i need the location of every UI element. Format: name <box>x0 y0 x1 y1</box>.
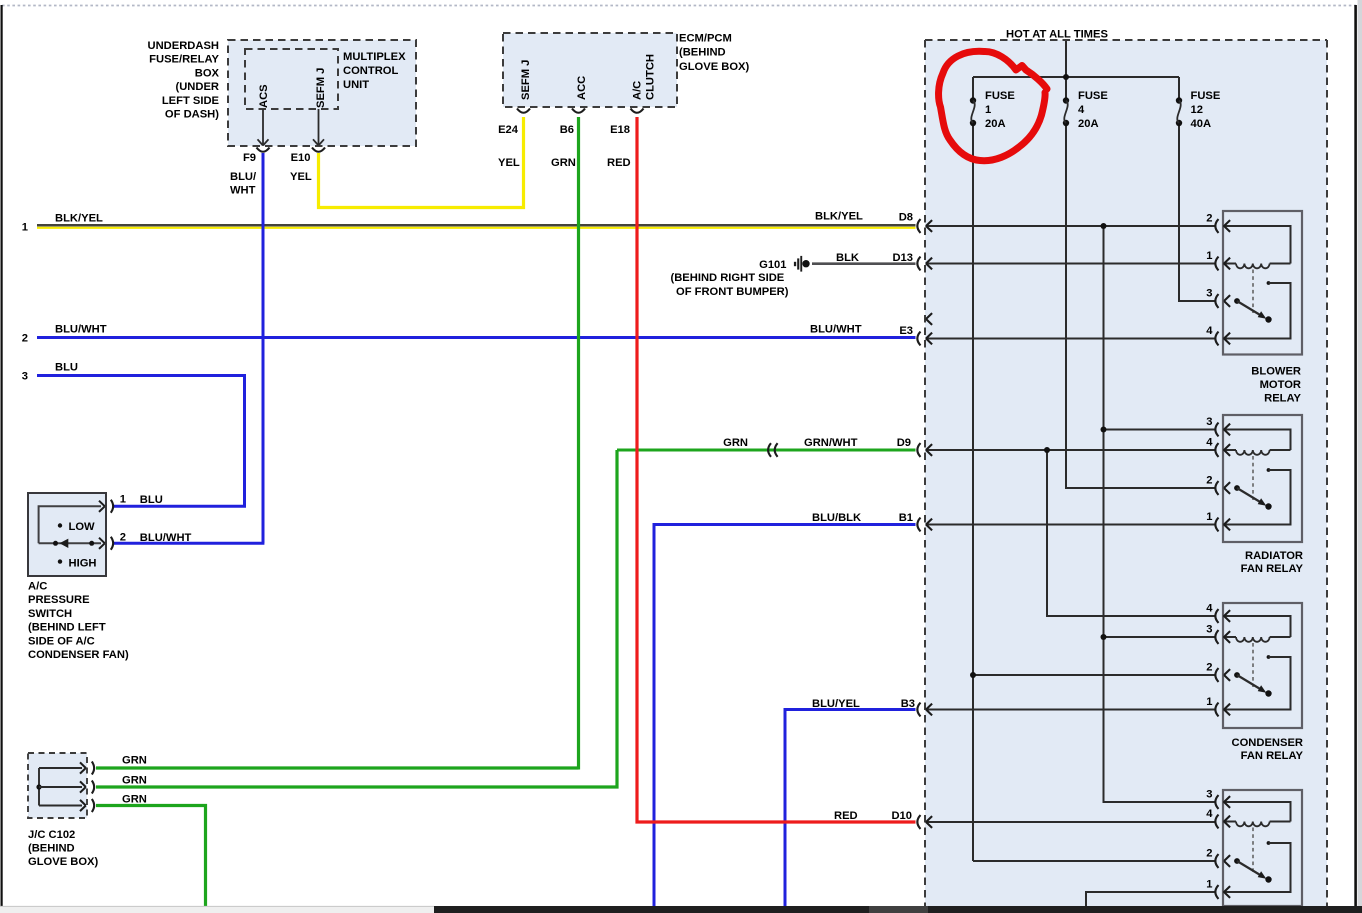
svg-text:BLU/: BLU/ <box>230 171 256 183</box>
svg-text:BLU/WHT: BLU/WHT <box>810 324 862 336</box>
svg-text:D9: D9 <box>897 437 911 449</box>
svg-text:OF FRONT BUMPER): OF FRONT BUMPER) <box>676 286 789 298</box>
svg-text:UNIT: UNIT <box>343 79 369 91</box>
svg-text:BLK: BLK <box>836 252 859 264</box>
svg-text:MOTOR: MOTOR <box>1260 379 1301 391</box>
svg-text:UNDERDASH: UNDERDASH <box>148 40 219 52</box>
svg-text:(BEHIND: (BEHIND <box>28 843 75 855</box>
svg-text:4: 4 <box>1206 437 1213 449</box>
svg-text:WHT: WHT <box>230 185 256 197</box>
svg-text:FUSE: FUSE <box>1191 90 1221 102</box>
svg-text:GLOVE BOX): GLOVE BOX) <box>28 856 99 868</box>
svg-text:BLU: BLU <box>140 494 163 506</box>
svg-text:CONTROL: CONTROL <box>343 65 398 77</box>
svg-text:YEL: YEL <box>290 171 312 183</box>
svg-text:GRN: GRN <box>122 794 147 806</box>
svg-text:4: 4 <box>1206 808 1213 820</box>
svg-text:E24: E24 <box>498 124 519 136</box>
svg-text:GRN: GRN <box>551 157 576 169</box>
svg-text:1: 1 <box>985 104 991 116</box>
svg-text:ACC: ACC <box>576 76 588 100</box>
svg-text:RED: RED <box>607 157 631 169</box>
svg-text:CONDENSER FAN): CONDENSER FAN) <box>28 649 129 661</box>
svg-text:SEFM J: SEFM J <box>315 68 327 108</box>
svg-text:GRN: GRN <box>122 774 147 786</box>
svg-text:YEL: YEL <box>498 157 520 169</box>
svg-text:4: 4 <box>1206 325 1213 337</box>
svg-text:BLK/YEL: BLK/YEL <box>815 211 863 223</box>
svg-text:GRN/WHT: GRN/WHT <box>804 437 858 449</box>
svg-text:4: 4 <box>1206 603 1213 615</box>
svg-text:1: 1 <box>1206 511 1212 523</box>
svg-text:1: 1 <box>1206 879 1212 891</box>
svg-text:E10: E10 <box>291 152 311 164</box>
svg-text:3: 3 <box>1206 624 1212 636</box>
svg-text:1: 1 <box>120 493 126 505</box>
svg-text:FUSE/RELAY: FUSE/RELAY <box>149 54 219 66</box>
svg-text:1: 1 <box>1206 250 1212 262</box>
svg-text:20A: 20A <box>1078 118 1099 130</box>
svg-text:(UNDER: (UNDER <box>175 81 219 93</box>
svg-text:A/C: A/C <box>632 81 644 100</box>
svg-text:BLOWER: BLOWER <box>1251 366 1301 378</box>
svg-text:E18: E18 <box>610 124 630 136</box>
svg-text:PRESSURE: PRESSURE <box>28 594 90 606</box>
svg-text:CLUTCH: CLUTCH <box>645 54 657 100</box>
svg-text:J/C C102: J/C C102 <box>28 829 75 841</box>
svg-text:BLU/WHT: BLU/WHT <box>55 324 107 336</box>
svg-text:RELAY: RELAY <box>1264 393 1301 405</box>
svg-text:FUSE: FUSE <box>1078 90 1108 102</box>
svg-text:(BEHIND: (BEHIND <box>679 47 726 59</box>
svg-text:3: 3 <box>1206 789 1212 801</box>
svg-text:D10: D10 <box>891 810 912 822</box>
svg-text:SIDE OF A/C: SIDE OF A/C <box>28 635 95 647</box>
svg-text:FAN RELAY: FAN RELAY <box>1241 750 1304 762</box>
svg-text:ECM/PCM: ECM/PCM <box>679 32 732 44</box>
svg-text:G101: G101 <box>759 259 786 271</box>
svg-text:E3: E3 <box>899 325 913 337</box>
svg-text:2: 2 <box>1206 662 1212 674</box>
svg-text:D13: D13 <box>892 252 913 264</box>
svg-text:CONDENSER: CONDENSER <box>1232 737 1303 749</box>
svg-text:3: 3 <box>1206 416 1212 428</box>
svg-text:(BEHIND RIGHT SIDE: (BEHIND RIGHT SIDE <box>671 272 785 284</box>
svg-text:A/C: A/C <box>28 581 47 593</box>
svg-text:FUSE: FUSE <box>985 90 1015 102</box>
svg-text:BLU: BLU <box>55 362 78 374</box>
svg-text:2: 2 <box>1206 475 1212 487</box>
svg-text:SWITCH: SWITCH <box>28 608 72 620</box>
svg-text:2: 2 <box>1206 848 1212 860</box>
svg-text:RADIATOR: RADIATOR <box>1245 550 1303 562</box>
svg-text:ACS: ACS <box>258 84 270 108</box>
svg-text:(BEHIND LEFT: (BEHIND LEFT <box>28 622 106 634</box>
svg-text:12: 12 <box>1191 104 1203 116</box>
svg-text:2: 2 <box>22 333 28 345</box>
svg-text:BLU/YEL: BLU/YEL <box>812 698 860 710</box>
svg-text:GLOVE BOX): GLOVE BOX) <box>679 61 750 73</box>
svg-text:20A: 20A <box>985 118 1006 130</box>
svg-text:D8: D8 <box>899 212 913 224</box>
svg-text:HIGH: HIGH <box>69 558 97 570</box>
svg-text:LOW: LOW <box>69 521 96 533</box>
svg-text:OF DASH): OF DASH) <box>165 109 219 121</box>
svg-text:2: 2 <box>120 532 126 544</box>
svg-text:3: 3 <box>1206 288 1212 300</box>
svg-text:GRN: GRN <box>723 437 748 449</box>
svg-text:B3: B3 <box>901 698 915 710</box>
svg-text:B6: B6 <box>560 124 574 136</box>
svg-text:3: 3 <box>22 371 28 383</box>
svg-text:BLU/BLK: BLU/BLK <box>812 512 861 524</box>
svg-text:RED: RED <box>834 810 858 822</box>
svg-text:LEFT SIDE: LEFT SIDE <box>162 95 220 107</box>
svg-text:1: 1 <box>22 222 28 234</box>
svg-text:MULTIPLEX: MULTIPLEX <box>343 51 406 63</box>
svg-text:F9: F9 <box>243 152 256 164</box>
svg-text:1: 1 <box>1206 696 1212 708</box>
svg-text:BLU/WHT: BLU/WHT <box>140 532 192 544</box>
svg-text:2: 2 <box>1206 213 1212 225</box>
svg-text:40A: 40A <box>1191 118 1212 130</box>
svg-text:GRN: GRN <box>122 755 147 767</box>
svg-text:4: 4 <box>1078 104 1085 116</box>
svg-text:FAN RELAY: FAN RELAY <box>1241 563 1304 575</box>
svg-text:BOX: BOX <box>195 67 220 79</box>
svg-text:SEFM J: SEFM J <box>520 60 532 100</box>
svg-text:HOT AT ALL TIMES: HOT AT ALL TIMES <box>1006 29 1108 41</box>
svg-text:BLK/YEL: BLK/YEL <box>55 213 103 225</box>
svg-text:B1: B1 <box>899 512 913 524</box>
